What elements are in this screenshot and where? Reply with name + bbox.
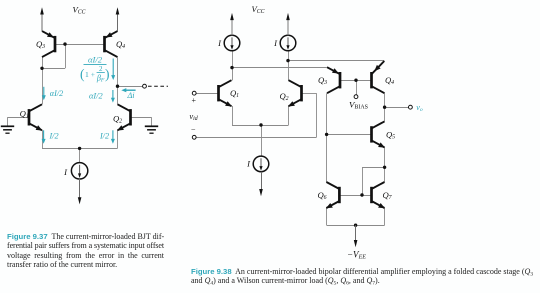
- svg-text:Q4: Q4: [385, 75, 394, 86]
- svg-text:VCC: VCC: [252, 4, 265, 15]
- svg-text:I/2: I/2: [48, 131, 58, 140]
- svg-text:βF: βF: [96, 73, 105, 83]
- svg-text:−VEE: −VEE: [347, 249, 366, 260]
- svg-text:Q1: Q1: [20, 108, 29, 119]
- svg-text:Q2: Q2: [113, 114, 122, 125]
- svg-text:Q1: Q1: [230, 88, 239, 99]
- svg-text:VCC: VCC: [73, 4, 86, 15]
- svg-text:1 +: 1 +: [85, 70, 95, 79]
- svg-text:vid: vid: [189, 111, 197, 122]
- svg-text:Q3: Q3: [36, 39, 45, 50]
- svg-text:Δi: Δi: [126, 91, 135, 100]
- svg-text:+: +: [192, 96, 197, 105]
- svg-text:vo: vo: [416, 103, 423, 113]
- svg-text:VBIAS: VBIAS: [349, 99, 368, 110]
- svg-text:2: 2: [99, 65, 103, 73]
- svg-text:Q2: Q2: [279, 91, 288, 102]
- svg-text:I: I: [246, 159, 251, 169]
- svg-text:Q3: Q3: [318, 75, 327, 86]
- svg-text:I: I: [273, 38, 278, 48]
- svg-text:αI/2: αI/2: [89, 91, 103, 100]
- svg-text:Q4: Q4: [116, 39, 125, 50]
- svg-text:Q5: Q5: [386, 130, 395, 141]
- svg-text:I/2: I/2: [99, 131, 109, 140]
- svg-text:Q6: Q6: [317, 190, 326, 201]
- svg-text:αI/2: αI/2: [50, 89, 63, 98]
- svg-text:): ): [105, 67, 110, 82]
- svg-text:αI/2: αI/2: [88, 54, 103, 64]
- svg-text:Q7: Q7: [382, 190, 392, 201]
- svg-text:I: I: [63, 167, 68, 177]
- svg-text:I: I: [217, 38, 222, 48]
- svg-text:−: −: [191, 125, 196, 134]
